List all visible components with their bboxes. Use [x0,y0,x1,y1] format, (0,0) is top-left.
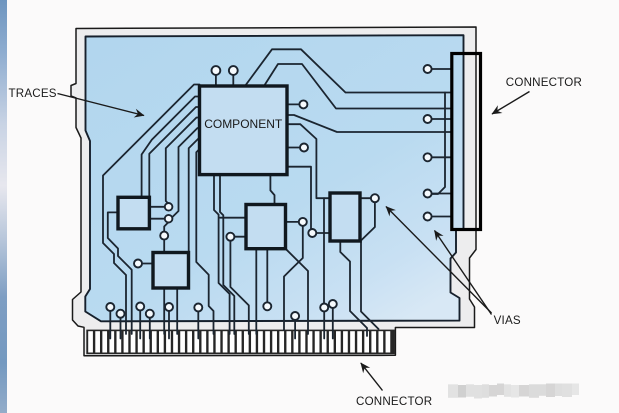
svg-text:CONNECTOR: CONNECTOR [356,395,432,408]
wire W27: via V11 stem to U3 top [163,239,165,252]
PCB board outer silhouette [71,27,476,356]
wire W41: via V4 down to board corner (d2) [361,202,379,329]
wire W26: U2 right pin to via V10 [149,218,165,220]
wire: via V17 to connector J1 [431,193,452,195]
via V19 [226,233,234,241]
wire W34: U4 right pin to via V2 [286,221,300,223]
wire W19: U1 left bundle trace B1 to U2 top [142,97,200,198]
arrow: TRACES label to trace bundle [58,94,145,116]
component U5 (tall rectangle) [330,193,360,241]
via V8 [300,144,308,152]
wire W42: W4 branch down to via V27 [323,198,325,303]
wire W28: via V13 to U3 left [142,263,153,265]
via V4 [371,194,379,202]
wire W25: U2 right pin to via V9 [149,206,165,208]
arrow: VIAS label to via V4 [386,207,492,314]
wire W40: U5 bottom to board corner (d1) [340,241,367,336]
svg-text:COMPONENT: COMPONENT [204,117,283,131]
wire W30: U3 bottom stem to edge finger [176,288,178,334]
wire W38: U4 corner to edge finger [286,249,309,334]
via V26 [291,312,299,320]
via V15 [424,115,432,123]
connector J1 (right edge, thick outline) [452,54,481,230]
svg-text:VIAS: VIAS [494,314,521,327]
component U2 (small square) [118,197,149,229]
wire W36: U4 bottom stem to via V26 [266,249,268,303]
wire: stem from via V24 to edge finger [168,311,170,339]
wire W2: U1 top to connector J1 (inner hat) [264,64,452,109]
edge connector J2 gold fingers (bottom comb) [86,330,395,355]
via V20 [106,303,114,311]
via V2 [299,218,307,226]
blurred watermark blocks [448,384,579,399]
via V7 [299,100,307,108]
via V13 [134,260,142,268]
wire: stem from via V26 to edge finger [294,320,296,339]
component U1 (large IC) [200,86,288,175]
wire: via V16 to connector J1 [431,156,452,158]
via V25 [194,304,202,312]
wire W39: U5 right pin to via V4 [360,197,371,199]
wire: stem from via V27 to edge finger [323,311,325,338]
via V26 [263,302,271,310]
via V10 [165,215,173,223]
wire W20: U1 left bundle trace B2 to U2 top [149,107,199,197]
wire: via V14 to connector J1 [431,68,452,70]
wire W37: via V2 down to edge finger [284,226,303,330]
wire W21: U1 left bundle trace B3 to via V9 [166,118,200,204]
wire W3: U1 right to connector J1 [287,115,452,132]
arrow: CONNECTOR label to J2 fingers [361,363,383,391]
wire W35: U4 bottom stem to edge finger [255,249,257,334]
wire W7: U1 right pin to via V7 [287,103,300,105]
wire: stem from via V23 to edge finger [149,318,151,339]
component U4 (medium square) [246,205,286,249]
via V6 [229,66,238,75]
wire W18: U1 corner bundle trace B0 to edge finger [103,85,200,335]
wire W8: U1 right pin to via V8 [287,147,300,149]
via V11 [160,232,168,240]
wire W24: U2 left pin to edge finger [108,212,132,334]
wire W10: via V6 stem to U1 top [232,75,234,87]
via V23 [146,310,154,318]
wire: stem from via V25 to edge finger [197,311,199,338]
via V5 [212,66,221,75]
component U3 (small square) [153,253,189,289]
wire: via V18 to connector J1 [431,216,452,218]
wire W17: U1 bottom to edge finger (P2) [220,175,234,334]
wire W33: stub into U4 left [220,217,246,219]
wire W4: U1 right to U5 left pin [287,124,330,198]
wire W1: U1 top to connector J1 (outer hat) [245,49,452,92]
via V9 [165,203,173,211]
via V14 [424,65,432,73]
via V21 [117,310,125,318]
via V16 [424,153,432,161]
wire W32: via V19 down to edge finger [230,241,248,334]
wire: stem from via V20 to edge finger [109,311,111,339]
wire W31: via V19 to U4 left [234,236,246,238]
wire: via V15 to connector J1 [431,118,452,120]
via V27 [320,304,328,312]
wire W6: branch from W1 down to via V17 [431,93,445,195]
svg-text:TRACES: TRACES [9,87,57,100]
svg-text:CONNECTOR: CONNECTOR [506,76,582,89]
wire W9: via V5 stem to U1 top [215,75,217,87]
wire: stem from via V28 to edge finger [332,308,334,339]
wire W15: bundle trace B6 to edge finger [196,149,213,334]
via V24 [165,303,173,311]
wire W12: stub from via V11 [164,219,172,232]
wire W16: U1 bottom to edge finger (P1) [214,175,230,334]
via V18 [424,213,432,221]
copper pour (blue board area) [85,35,463,321]
wire: stem from via V22 to edge finger [139,310,141,338]
via V28 [329,300,337,308]
arrow: VIAS label to via V18 [435,231,492,315]
wire W5: U1 right through via V12 to U5 [287,167,330,233]
wire W23: U1 left bundle trace B5 to U3 top [189,139,200,253]
wire: stem from via V21 to edge finger [120,318,122,339]
wire W11: U1 bottom to U4 top [270,175,274,205]
left window edge gradient bar [0,0,7,413]
wire W29: U3 bottom stem to edge finger [163,288,165,334]
wire W22: U1 left bundle trace B4 to via V10 [172,128,200,218]
arrow: CONNECTOR label to J1 [492,92,530,115]
via V17 [424,190,432,198]
via V12 [308,229,316,237]
via V22 [136,303,144,311]
